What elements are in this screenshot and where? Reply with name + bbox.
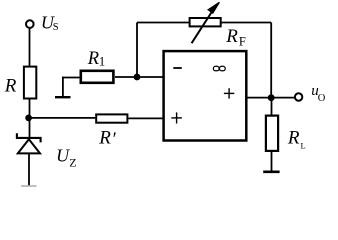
svg-text:R: R [4,75,17,96]
svg-text:U: U [56,145,70,165]
svg-text:R: R [287,127,300,148]
svg-text:L: L [301,140,306,150]
svg-text:R: R [87,49,99,69]
svg-text:F: F [239,34,246,48]
svg-text:S: S [53,22,59,33]
svg-text:R: R [98,127,111,148]
svg-text:1: 1 [99,53,106,68]
svg-text:Z: Z [69,155,76,169]
svg-text:O: O [318,93,326,104]
svg-text:R: R [225,26,238,47]
